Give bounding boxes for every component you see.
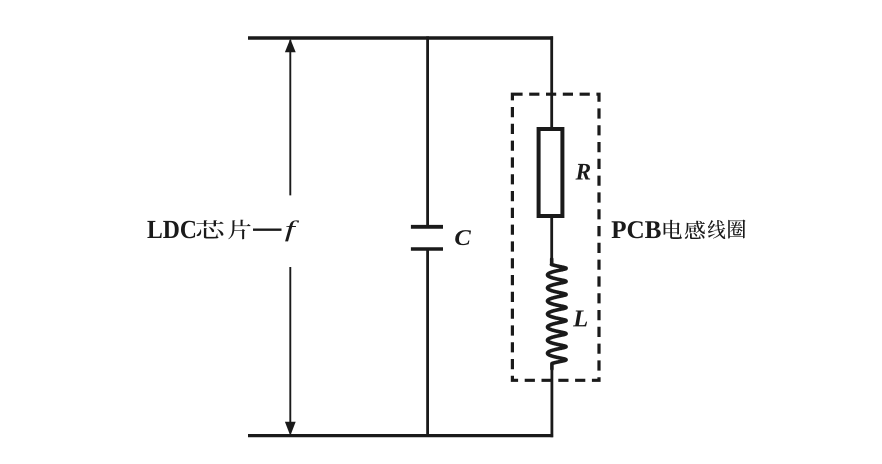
measurement arrow f: bottom arrowhead xyxy=(285,422,296,436)
label: 线 xyxy=(708,220,725,239)
wire: top rail xyxy=(248,36,553,39)
wire: right branch from top rail to resistor xyxy=(550,36,553,129)
label: dash of LDC芯片--f xyxy=(253,229,282,231)
label: f (italic) xyxy=(285,220,299,241)
label: LDC xyxy=(147,221,195,239)
dashed box: PCB inductor coil outline xyxy=(512,94,599,380)
wire: bottom rail xyxy=(248,434,553,437)
label: L (italic) xyxy=(573,310,587,326)
wire: capacitor branch lower xyxy=(426,249,429,435)
label: 感 xyxy=(685,221,705,239)
label: R (italic) xyxy=(575,164,590,180)
label: C (italic) xyxy=(455,230,471,245)
measurement arrow f: lower shaft xyxy=(289,267,291,434)
resistor R: body xyxy=(539,129,563,216)
label: PCB xyxy=(612,221,661,238)
wire: inductor to bottom rail xyxy=(551,367,554,437)
wire: resistor to inductor xyxy=(550,216,553,262)
label: 芯 xyxy=(196,220,223,238)
wire: capacitor branch upper xyxy=(426,36,429,226)
label: 电 xyxy=(664,220,682,239)
capacitor C: bottom plate xyxy=(411,247,443,251)
measurement arrow f: upper shaft xyxy=(289,40,291,195)
capacitor C: top plate xyxy=(411,225,443,229)
measurement arrow f: top arrowhead xyxy=(285,39,296,52)
label: 片 xyxy=(228,220,250,240)
label: 圈 xyxy=(728,220,745,239)
inductor L: coil xyxy=(548,259,567,369)
